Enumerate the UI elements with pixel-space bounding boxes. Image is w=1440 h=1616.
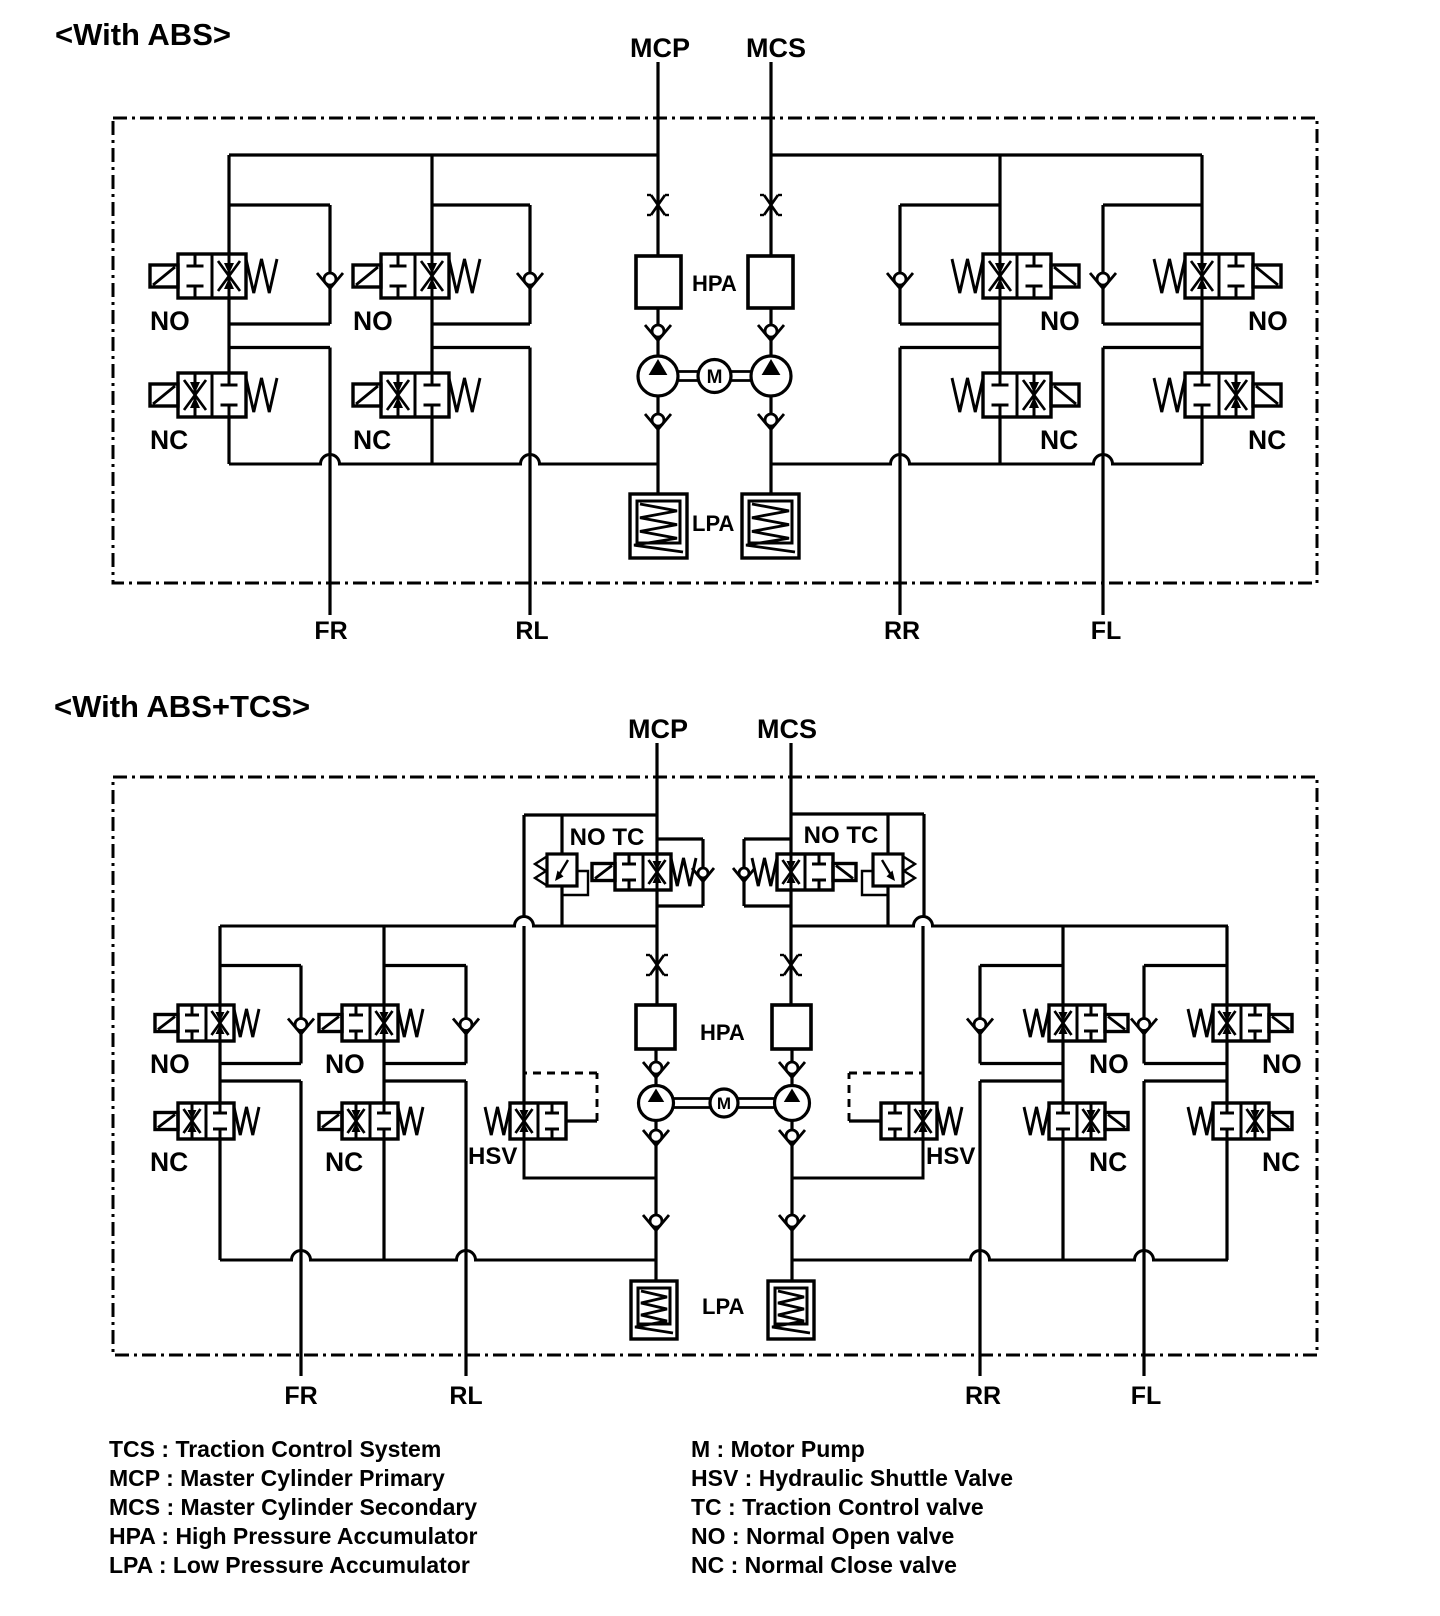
svg-text:NC: NC bbox=[1262, 1147, 1300, 1177]
valve TC secondary bbox=[777, 854, 833, 890]
wire: RR wheel tee bbox=[900, 346, 1000, 349]
wire: FL bypass top bbox=[1103, 203, 1202, 206]
svg-text:RR: RR bbox=[965, 1382, 1001, 1410]
check valve bypass FR (diagram 2) bbox=[288, 1019, 314, 1035]
svg-text:M: M bbox=[707, 367, 723, 388]
svg-text:TC : Traction Control valve: TC : Traction Control valve bbox=[691, 1494, 984, 1520]
svg-text:FR: FR bbox=[284, 1382, 317, 1410]
svg-text:NO TC: NO TC bbox=[570, 824, 645, 851]
valve NC FR (diagram 2) bbox=[178, 1103, 234, 1139]
svg-text:MCP : Master Cylinder Primary: MCP : Master Cylinder Primary bbox=[109, 1465, 445, 1491]
accumulator HPA primary bbox=[636, 256, 681, 308]
wire: RL bypass top (d2) bbox=[384, 964, 466, 967]
wire: primary return bus (d2) bbox=[220, 1251, 656, 1261]
accumulator HPA primary (d2) bbox=[636, 1005, 675, 1049]
wire: RL wheel tee bbox=[432, 346, 530, 349]
valve NO FR (diagram 1) bbox=[178, 254, 246, 298]
wire: TC primary HSV drop upper bbox=[522, 815, 525, 916]
check valve bypass RL (diagram 2) bbox=[453, 1019, 479, 1035]
wire: TC bypass top primary bbox=[657, 837, 703, 840]
motor M circle (d2) bbox=[710, 1089, 738, 1117]
svg-text:FR: FR bbox=[314, 617, 347, 645]
relief pilot loop secondary bbox=[862, 871, 888, 895]
wire: FR wheel tee bbox=[229, 346, 330, 349]
svg-text:NC: NC bbox=[1089, 1147, 1127, 1177]
wire: secondary return bus (d2) bbox=[792, 1251, 1228, 1261]
svg-text:NO: NO bbox=[325, 1049, 365, 1079]
wire: primary pump outlet down bbox=[656, 396, 659, 494]
wire: FR bypass bottom (d2) bbox=[220, 1062, 301, 1065]
svg-text:NO: NO bbox=[150, 306, 190, 336]
wire: TC primary inlet header bbox=[524, 813, 657, 816]
svg-text:HPA : High Pressure Accumulato: HPA : High Pressure Accumulator bbox=[109, 1523, 478, 1549]
wire: RR NC outlet to return bus bbox=[998, 417, 1001, 464]
svg-text:NC : Normal Close valve: NC : Normal Close valve bbox=[691, 1552, 957, 1578]
motor shaft right (d2) bbox=[738, 1097, 775, 1100]
check valve above primary pump (d2) bbox=[643, 1062, 669, 1078]
valve NC RR (diagram 1) bbox=[983, 373, 1051, 417]
accumulator LPA primary (d2) bbox=[631, 1281, 677, 1339]
wire: secondary top bus (d2) bbox=[791, 917, 1228, 927]
wire: FL NC outlet to return bus (d2) bbox=[1225, 1139, 1228, 1260]
relief outlet primary bbox=[560, 886, 563, 926]
wire: RL wheel tee (d2) bbox=[384, 1079, 466, 1082]
HECU dash-dot boundary box (ABS+TCS) bbox=[113, 777, 1317, 1355]
svg-text:NO: NO bbox=[1089, 1049, 1129, 1079]
svg-text:TCS : Traction Control System: TCS : Traction Control System bbox=[109, 1436, 441, 1462]
wire: FR bypass top (d2) bbox=[220, 964, 301, 967]
orifice on MCP line bbox=[651, 195, 665, 215]
motor shaft right bbox=[731, 370, 751, 373]
accumulator HPA secondary (d2) bbox=[772, 1005, 811, 1049]
wire: RR inlet vertical bbox=[998, 155, 1001, 254]
check valve TC bypass primary bbox=[692, 868, 714, 882]
svg-text:NO: NO bbox=[1040, 306, 1080, 336]
svg-text:NO: NO bbox=[1262, 1049, 1302, 1079]
wire: FL bypass bottom bbox=[1103, 322, 1202, 325]
wire: FL between NO and NC (d2) bbox=[1225, 1041, 1228, 1103]
wire: primary return bus bbox=[229, 455, 658, 465]
relief valve secondary bbox=[873, 854, 903, 886]
svg-text:M: M bbox=[717, 1094, 731, 1113]
svg-text:LPA: LPA bbox=[702, 1294, 744, 1319]
wire: RR bypass bottom (d2) bbox=[980, 1062, 1063, 1065]
motor shaft left bbox=[678, 370, 698, 373]
check valve below secondary pump (d2) bbox=[779, 1130, 805, 1146]
wire: RL NC outlet to return bus bbox=[430, 417, 433, 464]
valve NC RR (diagram 2) bbox=[1049, 1103, 1105, 1139]
wire: RL between NO and NC bbox=[430, 298, 433, 373]
check valve bypass FL (diagram 2) bbox=[1131, 1019, 1157, 1035]
wire: RL bypass bottom bbox=[432, 322, 530, 325]
svg-text:NO : Normal Open valve: NO : Normal Open valve bbox=[691, 1523, 954, 1549]
orifice on MCP line (d2) bbox=[650, 955, 664, 975]
wire: RR bypass top bbox=[900, 203, 1000, 206]
wire: MCS through TC to HPA bbox=[789, 890, 792, 1005]
wire: TC bypass bottom primary bbox=[657, 904, 703, 907]
check valve above primary pump bbox=[645, 325, 671, 341]
pump primary bbox=[638, 356, 678, 396]
pump secondary (d2) bbox=[775, 1086, 810, 1121]
wire: FR wheel line vertical (d2) bbox=[299, 1081, 302, 1376]
wire: RL bypass vertical (d2) bbox=[464, 966, 467, 1064]
wire: FR wheel line vertical bbox=[328, 348, 331, 616]
svg-text:NO: NO bbox=[353, 306, 393, 336]
relief outlet secondary bbox=[886, 886, 889, 926]
pilot dashed vertical secondary bbox=[848, 1073, 851, 1121]
check valve lower secondary (d2) bbox=[779, 1215, 805, 1231]
orifice on MCS line bbox=[764, 195, 778, 215]
wire: secondary pump outlet down bbox=[769, 396, 772, 494]
svg-text:NO: NO bbox=[150, 1049, 190, 1079]
wire: TC bypass vertical primary bbox=[701, 839, 704, 906]
wire: FR NC outlet to return bus bbox=[227, 417, 230, 464]
pilot dashed vertical primary bbox=[596, 1073, 599, 1121]
check valve below primary pump bbox=[645, 414, 671, 430]
pilot dashed horizontal secondary bbox=[849, 1072, 923, 1075]
svg-text:NO TC: NO TC bbox=[804, 822, 879, 849]
valve NO RL (diagram 1) bbox=[381, 254, 449, 298]
wire: MCP through TC to HPA bbox=[655, 890, 658, 1005]
check valve bypass RL (diagram 1) bbox=[517, 273, 543, 289]
wire: primary top bus (d2) bbox=[220, 917, 657, 927]
svg-text:M : Motor Pump: M : Motor Pump bbox=[691, 1436, 865, 1462]
check valve above secondary pump (d2) bbox=[779, 1062, 805, 1078]
pilot dashed horizontal primary bbox=[524, 1072, 597, 1075]
wire: FR bypass top bbox=[229, 203, 330, 206]
wire: FL inlet vertical bbox=[1200, 155, 1203, 254]
wire: FR bypass bottom bbox=[229, 322, 330, 325]
svg-text:MCP: MCP bbox=[630, 33, 690, 63]
wire: FL NC outlet to return bus bbox=[1200, 417, 1203, 464]
svg-text:RL: RL bbox=[515, 617, 548, 645]
valve NC FL (diagram 2) bbox=[1213, 1103, 1269, 1139]
check valve above secondary pump bbox=[758, 325, 784, 341]
wire: FL bypass vertical (d2) bbox=[1142, 966, 1145, 1064]
wire: MCP supply line vertical bbox=[656, 62, 659, 256]
wire: HSV secondary to pump suction bbox=[792, 1139, 923, 1178]
valve NC RL (diagram 1) bbox=[381, 373, 449, 417]
svg-text:NC: NC bbox=[325, 1147, 363, 1177]
svg-text:HSV : Hydraulic Shuttle Valve: HSV : Hydraulic Shuttle Valve bbox=[691, 1465, 1013, 1491]
wire: secondary pump outlet down (d2) bbox=[790, 1121, 793, 1282]
wire: FL wheel tee bbox=[1103, 346, 1202, 349]
wire: MCS pump column upper bbox=[769, 308, 772, 356]
wire: MCP supply line vertical (d2) bbox=[655, 743, 658, 854]
wire: FL wheel line vertical bbox=[1101, 348, 1104, 616]
wire: RR bypass top (d2) bbox=[980, 964, 1063, 967]
valve NC FR (diagram 1) bbox=[178, 373, 246, 417]
svg-text:RL: RL bbox=[449, 1382, 482, 1410]
wire: HSV primary outlet bbox=[566, 1119, 597, 1122]
svg-text:<With ABS+TCS>: <With ABS+TCS> bbox=[54, 689, 310, 724]
relief valve primary bbox=[547, 854, 577, 886]
check valve below secondary pump bbox=[758, 414, 784, 430]
wire: FL bypass top (d2) bbox=[1144, 964, 1227, 967]
wire: HSV secondary outlet bbox=[849, 1119, 881, 1122]
wire: FR bypass vertical (d2) bbox=[299, 966, 302, 1064]
wire: TC secondary inlet header bbox=[791, 812, 924, 815]
wire: RL NC outlet to return bus (d2) bbox=[382, 1139, 385, 1260]
svg-text:HSV: HSV bbox=[468, 1143, 517, 1170]
HECU dash-dot boundary box (ABS) bbox=[113, 118, 1317, 583]
valve NO RR (diagram 2) bbox=[1049, 1005, 1105, 1041]
wire: primary pump column (d2) bbox=[654, 1049, 657, 1086]
wire: FL inlet vertical (d2) bbox=[1225, 926, 1228, 1005]
wire: FR between NO and NC bbox=[227, 298, 230, 373]
svg-text:MCS: MCS bbox=[746, 33, 806, 63]
wire: RR bypass vertical (d2) bbox=[978, 966, 981, 1064]
wire: RL between NO and NC (d2) bbox=[382, 1041, 385, 1103]
wire: FL between NO and NC bbox=[1200, 298, 1203, 373]
check valve lower primary (d2) bbox=[643, 1215, 669, 1231]
svg-text:NC: NC bbox=[1040, 425, 1078, 455]
wire: RL inlet vertical bbox=[430, 155, 433, 254]
svg-text:NC: NC bbox=[1248, 425, 1286, 455]
svg-text:<With ABS>: <With ABS> bbox=[55, 17, 231, 52]
wire: MCS supply line vertical bbox=[769, 62, 772, 256]
svg-text:FL: FL bbox=[1131, 1382, 1162, 1410]
wire: RR wheel tee (d2) bbox=[980, 1079, 1063, 1082]
wire: HSV primary to pump suction bbox=[524, 1139, 656, 1178]
wire: RR between NO and NC (d2) bbox=[1061, 1041, 1064, 1103]
wire: RL bypass vertical bbox=[528, 205, 531, 324]
valve NO FL (diagram 2) bbox=[1213, 1005, 1269, 1041]
wire: HSV primary drop lower bbox=[522, 926, 525, 1103]
wire: FL bypass vertical bbox=[1101, 205, 1104, 324]
wire: RL wheel line vertical bbox=[528, 348, 531, 616]
wire: secondary top bus bbox=[771, 153, 1202, 156]
accumulator LPA secondary (d2) bbox=[768, 1281, 814, 1339]
svg-text:NO: NO bbox=[1248, 306, 1288, 336]
svg-text:NC: NC bbox=[150, 1147, 188, 1177]
wire: MCS supply line vertical (d2) bbox=[789, 743, 792, 854]
wire: RR bypass bottom bbox=[900, 322, 1000, 325]
wire: RL inlet vertical (d2) bbox=[382, 926, 385, 1005]
svg-text:RR: RR bbox=[884, 617, 920, 645]
check valve bypass RR (diagram 2) bbox=[967, 1019, 993, 1035]
wire: RR NC outlet to return bus (d2) bbox=[1061, 1139, 1064, 1260]
wire: FL bypass bottom (d2) bbox=[1144, 1062, 1227, 1065]
relief inlet secondary bbox=[886, 814, 889, 854]
wire: FL wheel tee (d2) bbox=[1144, 1079, 1227, 1082]
valve NO RR (diagram 1) bbox=[983, 254, 1051, 298]
check valve TC bypass secondary bbox=[733, 868, 755, 882]
wire: MCP pump column upper bbox=[656, 308, 659, 356]
pump primary (d2) bbox=[639, 1086, 674, 1121]
svg-text:LPA: LPA bbox=[692, 511, 734, 536]
wire: FL wheel line vertical (d2) bbox=[1142, 1081, 1145, 1376]
svg-text:MCS: MCS bbox=[757, 714, 817, 744]
valve TC primary bbox=[615, 854, 671, 890]
pump secondary bbox=[751, 356, 791, 396]
svg-text:FL: FL bbox=[1091, 617, 1122, 645]
wire: secondary return bus bbox=[771, 455, 1202, 465]
accumulator LPA primary bbox=[630, 494, 687, 558]
valve NC FL (diagram 1) bbox=[1185, 373, 1253, 417]
wire: primary top bus bbox=[229, 153, 658, 156]
valve NO FR (diagram 2) bbox=[178, 1005, 234, 1041]
svg-text:MCS : Master Cylinder Secondar: MCS : Master Cylinder Secondary bbox=[109, 1494, 477, 1520]
wire: FR NC outlet to return bus (d2) bbox=[218, 1139, 221, 1260]
wire: RL bypass bottom (d2) bbox=[384, 1062, 466, 1065]
accumulator HPA secondary bbox=[748, 256, 793, 308]
valve HSV primary bbox=[510, 1103, 566, 1139]
wire: HSV secondary drop lower bbox=[921, 926, 924, 1103]
relief pilot loop primary bbox=[562, 871, 588, 895]
check valve bypass FR (diagram 1) bbox=[317, 273, 343, 289]
check valve below primary pump (d2) bbox=[643, 1130, 669, 1146]
svg-text:HPA: HPA bbox=[692, 271, 737, 296]
svg-text:NC: NC bbox=[353, 425, 391, 455]
wire: RR inlet vertical (d2) bbox=[1061, 926, 1064, 1005]
svg-text:LPA : Low Pressure Accumulator: LPA : Low Pressure Accumulator bbox=[109, 1552, 470, 1578]
svg-text:HPA: HPA bbox=[700, 1020, 745, 1045]
motor shaft left (d2) bbox=[674, 1097, 711, 1100]
wire: primary pump outlet down (d2) bbox=[654, 1121, 657, 1282]
wire: RR bypass vertical bbox=[898, 205, 901, 324]
wire: FR between NO and NC (d2) bbox=[218, 1041, 221, 1103]
wire: RL wheel line vertical (d2) bbox=[464, 1081, 467, 1376]
wire: TC bypass vertical secondary bbox=[742, 839, 745, 906]
wire: RR wheel line vertical bbox=[898, 348, 901, 616]
check valve bypass RR (diagram 1) bbox=[887, 273, 913, 289]
orifice on MCS line (d2) bbox=[784, 955, 798, 975]
valve NC RL (diagram 2) bbox=[342, 1103, 398, 1139]
wire: FR bypass vertical bbox=[328, 205, 331, 324]
valve NO RL (diagram 2) bbox=[342, 1005, 398, 1041]
svg-text:HSV: HSV bbox=[926, 1143, 975, 1170]
wire: TC secondary HSV drop upper bbox=[922, 814, 925, 916]
check valve bypass FL (diagram 1) bbox=[1090, 273, 1116, 289]
wire: FR wheel tee (d2) bbox=[220, 1079, 301, 1082]
wire: TC bypass bottom secondary bbox=[744, 904, 791, 907]
wire: RR wheel line vertical (d2) bbox=[978, 1081, 981, 1376]
wire: secondary pump column (d2) bbox=[790, 1049, 793, 1086]
valve NO FL (diagram 1) bbox=[1185, 254, 1253, 298]
wire: FR inlet vertical bbox=[227, 155, 230, 254]
svg-text:MCP: MCP bbox=[628, 714, 688, 744]
svg-text:NC: NC bbox=[150, 425, 188, 455]
relief inlet primary bbox=[560, 815, 563, 854]
wire: TC bypass top secondary bbox=[744, 837, 791, 840]
valve HSV secondary bbox=[881, 1103, 937, 1139]
wire: FR inlet vertical (d2) bbox=[218, 926, 221, 1005]
wire: RR between NO and NC bbox=[998, 298, 1001, 373]
wire: RL bypass top bbox=[432, 203, 530, 206]
accumulator LPA secondary bbox=[742, 494, 799, 558]
motor M circle bbox=[698, 360, 731, 393]
